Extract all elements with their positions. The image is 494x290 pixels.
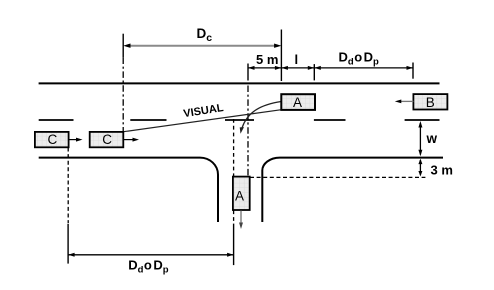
vertical dash-dot line at x=68 (front of first C) [67,148,69,224]
svg-text:DdoDp: DdoDp [339,50,380,68]
w dimension arrow [419,123,421,155]
svg-text:DdoDp: DdoDp [128,257,169,275]
vehicle B box [413,94,447,109]
svg-text:VISUAL: VISUAL [183,102,225,120]
dimension 5 m [248,67,281,69]
sight line VISUAL [124,110,281,132]
dashed setback line 3m below road [250,176,425,178]
dimension Dc: grey line with arrows [127,45,279,47]
svg-text:C: C [48,132,58,147]
vehicle C box 1 [35,132,69,147]
svg-text:A: A [293,95,302,110]
vehicle C box 2 [90,132,124,147]
dimension l (vehicle length) [281,67,314,69]
vertical dashed line at x=233.6 upper part [233,119,235,176]
svg-text:l: l [295,52,299,67]
vertical dash-dot line at x=248 (intersection reference) [247,86,249,177]
vertical dash-dot line at x=123 (front of vehicle C) [122,58,124,132]
road bottom edge left with corner curve [39,158,218,222]
curved turning path of vehicle A [242,102,281,129]
svg-text:5 m: 5 m [256,52,278,67]
vehicle A box (in side road) [233,177,250,210]
arrow from A down [240,211,242,225]
road centre dashed line [39,119,440,121]
dimension 5m / l / Dd o Dp ticks [247,64,249,81]
bottom dimension ticks [67,224,69,264]
svg-text:A: A [235,188,244,203]
dimension Dc: ticks [122,34,124,58]
dimension Dd o Dp (top) [314,67,413,69]
svg-text:C: C [102,132,112,147]
vertical dashed line at x=233.6 below box [233,210,235,222]
svg-text:w: w [426,131,438,146]
svg-text:3 m: 3 m [431,163,453,178]
road top edge [39,82,440,84]
arrow from C2 [123,139,134,141]
svg-text:B: B [426,95,435,110]
road bottom edge right with corner curve [262,158,443,222]
vehicle A box (on main road) [281,94,315,110]
3m dimension arrow [419,160,421,175]
arrow from B [400,100,414,102]
arrow from C1 [69,139,78,141]
bottom dimension Dd o Dp [68,254,234,256]
svg-text:Dc: Dc [197,26,213,44]
